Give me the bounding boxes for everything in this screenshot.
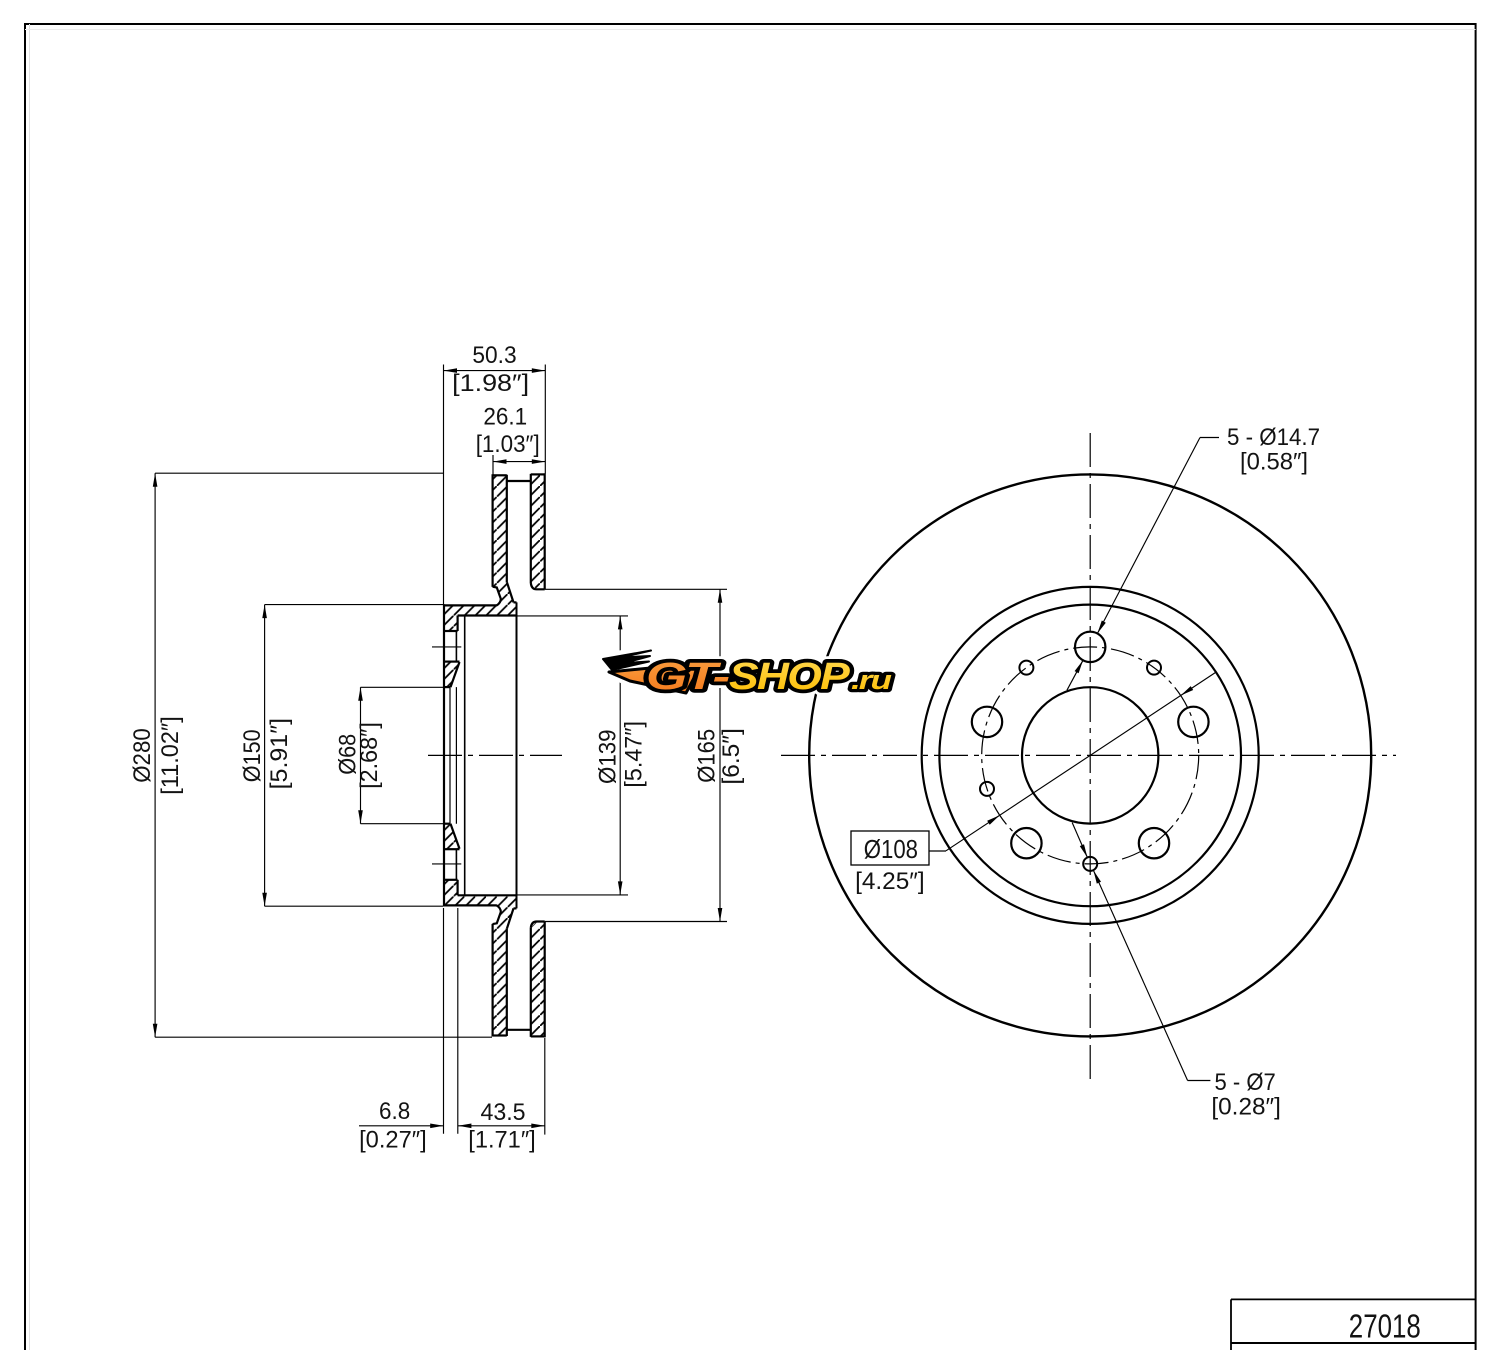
bolt hole D14.7 at 0 deg (1075, 632, 1105, 662)
small hole D7 at 180 deg (1083, 857, 1097, 871)
svg-text:[1.98″]: [1.98″] (452, 370, 529, 397)
front view center hole D68 (1022, 687, 1158, 823)
hatch hub block top (444, 662, 460, 688)
bolt hole D14.7 at 216 deg (1011, 828, 1041, 858)
dim 50.3 extension lines (443, 365, 445, 605)
dim D68 extension lines (361, 686, 444, 688)
bolt hole D14.7 at 72 deg (1178, 707, 1208, 737)
hatch hub block bottom (444, 824, 460, 850)
dim 26.1 line+arrows (493, 461, 545, 463)
small hole D7 at 252 deg (980, 782, 994, 796)
svg-text:[4.25″]: [4.25″] (855, 868, 925, 895)
front view outer circle D280 (809, 474, 1371, 1036)
front view flange circle D150 (939, 605, 1241, 907)
svg-text:50.3: 50.3 (472, 342, 516, 369)
dim D150 line+arrows (264, 605, 266, 907)
dim 26.1 extension line (492, 455, 494, 475)
svg-text:Ø150: Ø150 (239, 729, 266, 782)
hatch left friction plate top (493, 475, 507, 587)
svg-text:27018: 27018 (1349, 1307, 1421, 1344)
svg-text:[5.47″]: [5.47″] (620, 721, 647, 788)
svg-text:[5.91″]: [5.91″] (266, 718, 293, 789)
svg-text:[0.28″]: [0.28″] (1211, 1094, 1281, 1121)
leader 5-D14.7 upper segment+arrow (1097, 438, 1200, 634)
dim D280 extension lines (155, 472, 444, 474)
leader D108 horizontal (929, 850, 946, 852)
svg-text:[0.58″]: [0.58″] (1240, 449, 1308, 476)
section outline top: plate inner ends / cone / drum (531, 583, 545, 589)
title block box (1231, 1298, 1476, 1300)
hatch flange step bottom (444, 880, 458, 896)
svg-text:5 - Ø14.7: 5 - Ø14.7 (1227, 424, 1320, 451)
bolt hole D14.7 at 144 deg (1139, 828, 1169, 858)
small hole D7 at 324 deg (1019, 661, 1033, 675)
svg-text:43.5: 43.5 (480, 1099, 525, 1126)
label box D108 (851, 831, 929, 865)
dim 50.3 line+arrows (444, 370, 546, 372)
section outline bottom: plate inner ends / cone / drum (531, 922, 545, 928)
inner frame faint lines (29, 24, 31, 1350)
svg-text:[1.03″]: [1.03″] (476, 431, 540, 458)
dim D165 extension lines (545, 588, 727, 590)
bolt hole centerline top (section) (432, 646, 461, 648)
dim D165 line+arrows (719, 589, 721, 921)
dim D68 line+arrows (360, 687, 362, 823)
hatch flange step top (444, 616, 458, 632)
small hole D7 at 36 deg (1147, 661, 1161, 675)
hatch left friction plate bottom (493, 923, 507, 1035)
hatch cone+drum band bottom (444, 895, 517, 928)
hatch right friction plate bottom (531, 922, 545, 1037)
dim 6.8 extension lines (443, 908, 445, 1134)
svg-text:[2.68″]: [2.68″] (356, 722, 383, 789)
leader 5-D14.7 lower tail+arrow (1067, 660, 1083, 690)
svg-text:5 - Ø7: 5 - Ø7 (1215, 1069, 1276, 1096)
svg-text:6.8: 6.8 (379, 1098, 410, 1125)
svg-text:[0.27″]: [0.27″] (359, 1127, 427, 1154)
svg-text:Ø280: Ø280 (129, 728, 156, 783)
svg-text:[6.5″]: [6.5″] (718, 728, 745, 784)
svg-text:.ru: .ru (851, 665, 893, 695)
bolt hole centerline bottom (section) (432, 863, 461, 865)
svg-text:Ø108: Ø108 (864, 834, 918, 864)
section outline top: friction plates and rim (493, 474, 507, 476)
dim D108 arrows on bolt circle (987, 815, 1000, 824)
bolt slot right boundary top (455, 631, 457, 662)
dim 6.8 line+arrow (359, 1125, 444, 1127)
hatch cone+drum band top (444, 583, 517, 616)
watermark logo gt-shop.ru (600, 650, 893, 698)
horizontal centerline (section+front) (428, 754, 562, 756)
svg-text:SHOP: SHOP (729, 656, 851, 698)
svg-text:Ø139: Ø139 (595, 729, 622, 784)
leader 5-D7 upper tail+arrow (1072, 823, 1087, 858)
dim D280 line+arrows (154, 473, 156, 1037)
vertical centerline (front view) (1089, 433, 1091, 1082)
section outline bottom: friction plates and rim (493, 1034, 507, 1036)
bolt circle D108 (dash-dot) (982, 647, 1199, 864)
dim D139 line+arrows (619, 616, 621, 895)
dim D139 extension lines (517, 615, 629, 617)
hat cavity back edges (background) (464, 616, 466, 895)
dim D108 diagonal line (946, 672, 1216, 851)
svg-text:[11.02″]: [11.02″] (157, 716, 184, 795)
svg-text:[1.71″]: [1.71″] (468, 1127, 536, 1154)
svg-text:Ø165: Ø165 (694, 729, 721, 783)
front view hat ring circle D165 (922, 587, 1259, 924)
svg-text:GT-: GT- (646, 656, 729, 698)
leader 5-D7 lower segment+arrow (1093, 870, 1187, 1080)
hatch right friction plate top (531, 474, 545, 589)
dim D150 extension lines (265, 604, 443, 606)
bolt hole D14.7 at 288 deg (972, 707, 1002, 737)
svg-text:26.1: 26.1 (483, 403, 527, 430)
dim 43.5 extension line (544, 1038, 546, 1135)
dim 43.5 line+arrows (458, 1125, 545, 1127)
bolt slot right boundary bottom (455, 849, 457, 880)
